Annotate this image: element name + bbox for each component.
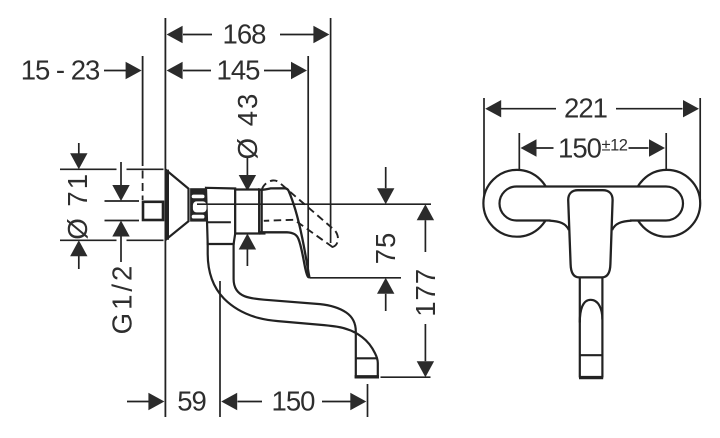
svg-text:G1/2: G1/2 — [107, 263, 138, 335]
spout front pipe — [580, 278, 603, 378]
svg-text:221: 221 — [564, 93, 607, 124]
handle front — [568, 190, 612, 277]
bar bottom edge masks at handle junction — [551, 218, 570, 224]
spout bend arc (front) — [580, 300, 603, 323]
svg-text:150: 150 — [272, 386, 316, 417]
aerator joint line — [356, 357, 378, 359]
dimension D71 — [60, 143, 164, 269]
handle raised position (dashed) — [262, 180, 338, 247]
dimension 177 — [381, 376, 431, 378]
aerator outlet face front — [579, 376, 603, 379]
valve body — [206, 188, 235, 244]
dimension 221 — [484, 98, 700, 206]
svg-text:15 - 23: 15 - 23 — [21, 55, 100, 86]
wall line — [164, 18, 166, 417]
cartridge housing D43 — [235, 190, 259, 234]
escutcheon cone — [166, 170, 189, 240]
dimension 75 — [310, 277, 402, 279]
dimension 59 — [127, 401, 150, 403]
dimension 150 +-12 — [519, 133, 666, 172]
body joint line upper — [208, 221, 231, 223]
centerline — [197, 203, 431, 205]
svg-text:Ø 43: Ø 43 — [232, 92, 263, 160]
dashed wall-depth line — [142, 56, 144, 200]
right escutcheon circle — [633, 170, 700, 237]
svg-text:145: 145 — [217, 55, 261, 86]
spout tube — [208, 236, 378, 377]
dimension 168 — [183, 18, 331, 243]
dimension 145 — [183, 56, 308, 277]
aerator joint line front — [580, 354, 603, 356]
svg-text:59: 59 — [177, 386, 206, 417]
knurled nut — [190, 188, 206, 221]
square union nut G1/2 — [143, 202, 163, 220]
handle base joint — [261, 189, 263, 233]
dimension G1/2 — [105, 162, 140, 262]
svg-text:Ø 71: Ø 71 — [62, 172, 93, 240]
svg-text:168: 168 — [223, 19, 267, 50]
body-to-handle fillet left — [550, 221, 569, 230]
svg-text:177: 177 — [410, 268, 441, 317]
svg-text:75: 75 — [370, 232, 401, 265]
body bar — [500, 187, 684, 221]
handle lever (solid) — [259, 188, 309, 277]
body-to-handle fillet right — [612, 221, 631, 230]
left escutcheon circle — [483, 170, 550, 237]
dimension 150 bottom — [219, 281, 221, 417]
svg-text:±12: ±12 — [602, 137, 628, 155]
aerator outlet face — [355, 375, 379, 378]
svg-text:150: 150 — [558, 133, 602, 164]
dimension 15 - 23 — [104, 70, 127, 72]
